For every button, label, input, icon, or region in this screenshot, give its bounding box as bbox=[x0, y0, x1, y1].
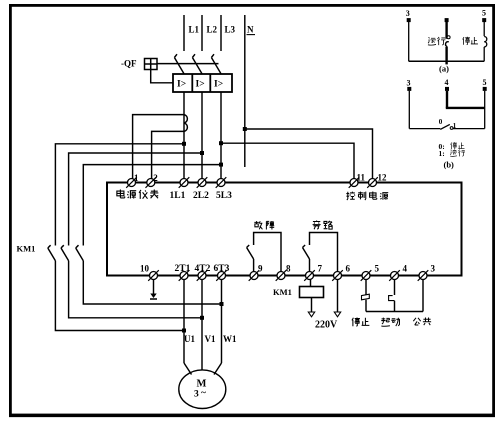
svg-text:(a): (a) bbox=[439, 64, 449, 74]
svg-text:1L1: 1L1 bbox=[170, 191, 186, 201]
svg-text:8: 8 bbox=[286, 264, 291, 274]
svg-text:5: 5 bbox=[483, 78, 487, 87]
svg-text:11: 11 bbox=[357, 173, 366, 183]
svg-text:1: 1 bbox=[134, 173, 139, 183]
svg-text:2: 2 bbox=[153, 173, 158, 183]
svg-text:5L3: 5L3 bbox=[216, 191, 232, 201]
svg-text:N: N bbox=[247, 25, 254, 35]
svg-text:3: 3 bbox=[407, 79, 411, 88]
svg-text:4: 4 bbox=[445, 78, 449, 87]
svg-text:1:: 1: bbox=[439, 149, 445, 158]
svg-text:~: ~ bbox=[201, 389, 206, 399]
svg-text:10: 10 bbox=[140, 264, 150, 274]
svg-text:4: 4 bbox=[403, 264, 408, 274]
svg-text:3: 3 bbox=[431, 264, 436, 274]
svg-text:5: 5 bbox=[482, 9, 486, 18]
svg-text:(b): (b) bbox=[444, 160, 455, 170]
svg-text:0: 0 bbox=[439, 118, 443, 126]
svg-text:7: 7 bbox=[318, 264, 323, 274]
svg-text:6T3: 6T3 bbox=[214, 264, 230, 274]
svg-text:L2: L2 bbox=[207, 25, 218, 35]
svg-text:KM1: KM1 bbox=[273, 287, 292, 297]
svg-text:I>: I> bbox=[214, 79, 223, 89]
svg-text:L3: L3 bbox=[225, 25, 236, 35]
svg-text:I>: I> bbox=[196, 79, 205, 89]
svg-text:4T2: 4T2 bbox=[195, 264, 211, 274]
svg-text:6: 6 bbox=[346, 264, 351, 274]
svg-text:-QF: -QF bbox=[121, 59, 137, 69]
svg-text:3: 3 bbox=[406, 9, 410, 18]
svg-text:9: 9 bbox=[258, 264, 263, 274]
svg-text:2T1: 2T1 bbox=[175, 264, 191, 274]
svg-text:U1: U1 bbox=[184, 334, 195, 344]
svg-text:V1: V1 bbox=[205, 334, 216, 344]
svg-text:I>: I> bbox=[177, 79, 186, 89]
svg-text:5: 5 bbox=[375, 264, 380, 274]
svg-text:2L2: 2L2 bbox=[193, 191, 209, 201]
svg-text:12: 12 bbox=[378, 173, 388, 183]
svg-text:W1: W1 bbox=[223, 334, 237, 344]
svg-text:220V: 220V bbox=[315, 320, 338, 331]
svg-text:L1: L1 bbox=[189, 25, 200, 35]
svg-text:1: 1 bbox=[453, 122, 457, 130]
svg-text:3: 3 bbox=[194, 390, 199, 400]
svg-text:KM1: KM1 bbox=[17, 244, 36, 254]
